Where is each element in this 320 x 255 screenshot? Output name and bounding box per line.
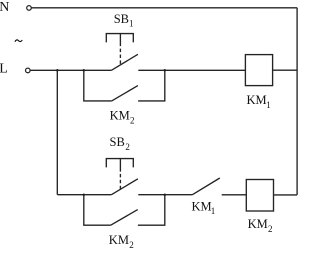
pushbutton SB1 contact — [111, 54, 137, 70]
junction dot branch-left rung1 — [83, 69, 86, 72]
svg-text:KM: KM — [248, 217, 268, 231]
wire coil KM2 to rail — [274, 194, 298, 196]
svg-text:KM: KM — [247, 93, 267, 107]
junction dot branch-right rung2 — [164, 193, 167, 196]
wire rung2 left part — [57, 194, 111, 196]
wire L rung left — [30, 69, 111, 71]
contact KM1 rung2 — [192, 178, 220, 195]
terminal N — [27, 6, 32, 11]
svg-text:2: 2 — [125, 142, 129, 152]
svg-text:L: L — [0, 62, 8, 77]
junction dot branch-left rung2 — [83, 193, 86, 196]
wire rung2 middle — [138, 194, 192, 196]
wire N line — [32, 7, 298, 9]
junction dot branch-right rung1 — [164, 69, 167, 72]
svg-text:KM: KM — [192, 199, 212, 213]
svg-text:2: 2 — [130, 116, 135, 126]
pushbutton SB2 actuator — [106, 159, 133, 172]
svg-text:SB: SB — [114, 12, 129, 26]
svg-text:2: 2 — [268, 224, 273, 234]
svg-text:1: 1 — [129, 19, 134, 29]
coil KM2 — [246, 180, 273, 212]
AC symbol ~ — [15, 40, 22, 42]
wire coil KM1 to rail — [273, 69, 298, 71]
svg-text:2: 2 — [129, 240, 134, 250]
svg-text:N: N — [0, 0, 9, 15]
pushbutton SB1 actuator — [106, 34, 133, 47]
svg-text:SB: SB — [110, 135, 125, 149]
contact KM2 parallel branch rung1 — [84, 70, 165, 101]
svg-text:1: 1 — [211, 206, 216, 216]
wire rung1 right part — [138, 69, 245, 71]
wire right rail — [296, 8, 298, 195]
wire rung2 to coil KM2 — [222, 194, 247, 196]
wire drop to rung 2 — [56, 70, 58, 194]
terminal L — [26, 68, 31, 73]
coil KM1 — [245, 55, 272, 86]
svg-text:KM: KM — [109, 233, 129, 247]
pushbutton SB2 dashed link — [119, 174, 121, 190]
pushbutton SB1 dashed link — [119, 49, 121, 65]
junction dot drop/rung1 — [56, 69, 59, 72]
pushbutton SB2 contact — [111, 179, 137, 195]
contact KM2 parallel branch rung2 — [84, 195, 165, 226]
svg-text:KM: KM — [110, 109, 130, 123]
svg-text:1: 1 — [266, 100, 271, 110]
